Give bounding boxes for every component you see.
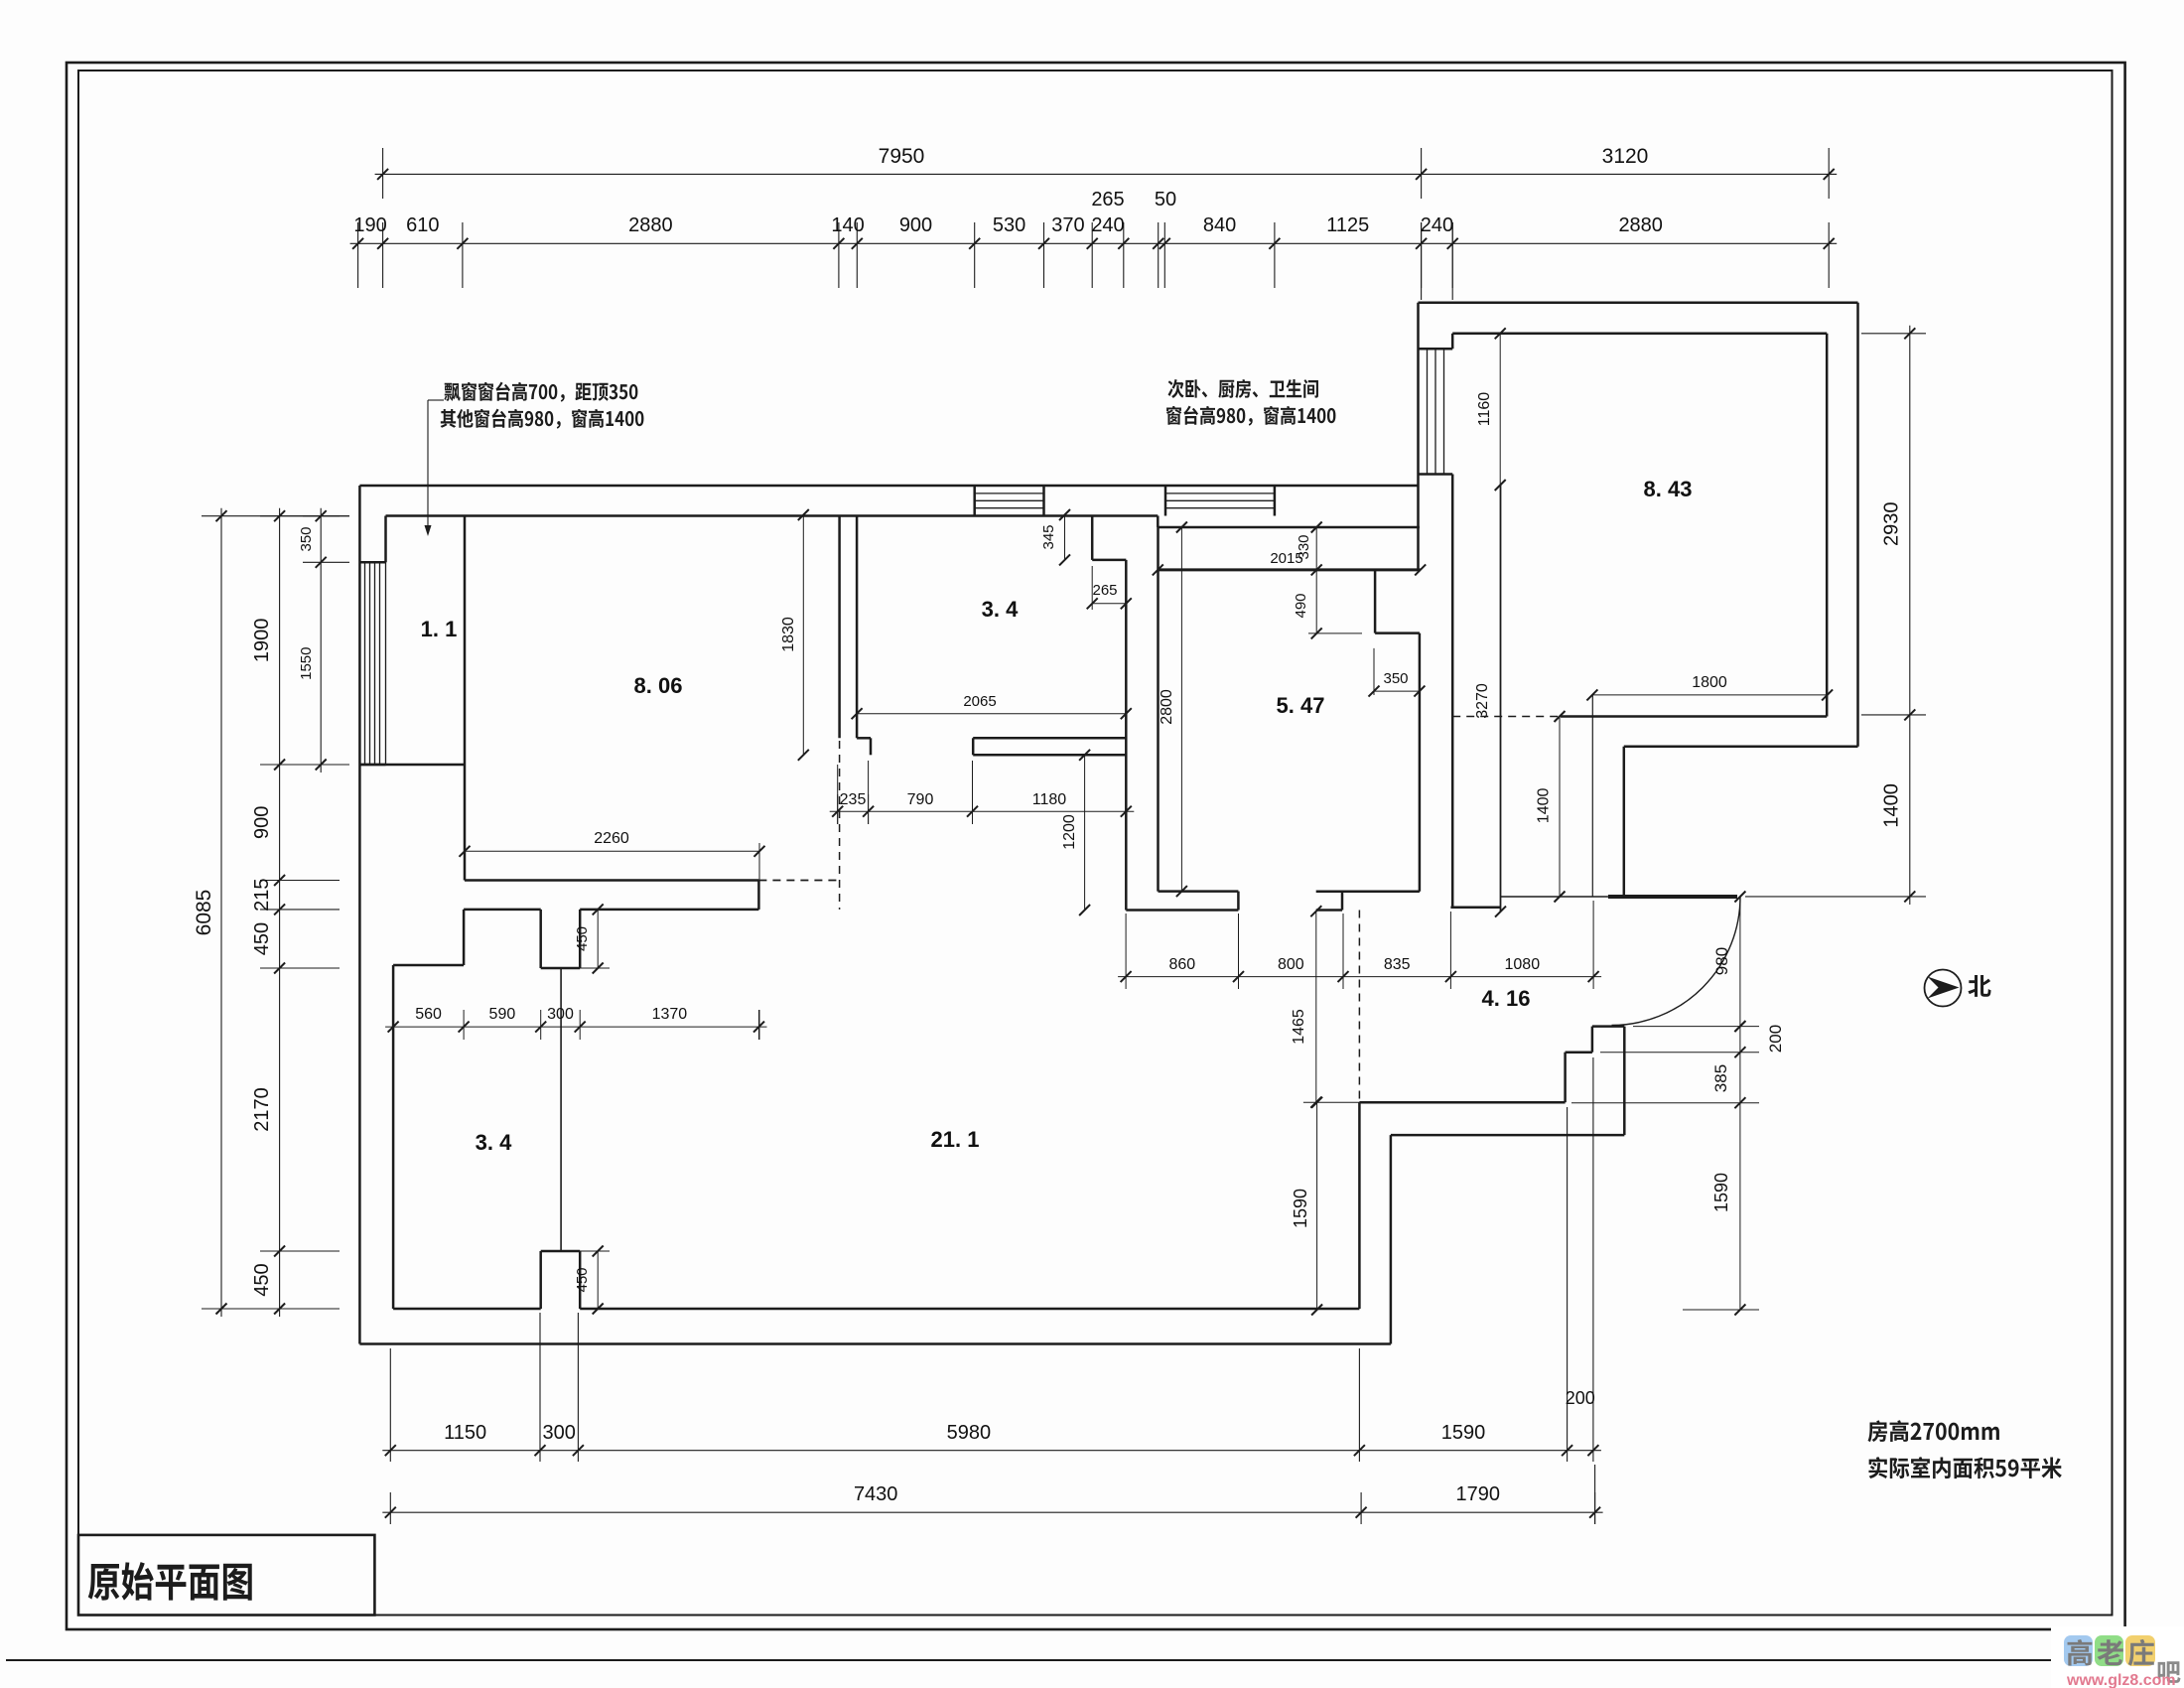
kitchen south wall [973,737,1126,740]
svg-text:350: 350 [298,526,315,551]
note: 其他窗台高980，窗高1400 [441,409,644,429]
svg-text:1370: 1370 [652,1006,688,1023]
svg-text:860: 860 [1168,956,1195,973]
bay 1.1 bottom wall [359,764,465,767]
svg-text:345: 345 [1040,524,1057,549]
door D1 swing arc [1612,897,1741,1026]
window W2 530 (top wall) [973,486,976,516]
bath niche walls [1374,570,1377,633]
svg-text:1830: 1830 [780,617,797,652]
svg-text:7430: 7430 [854,1483,898,1505]
svg-text:370: 370 [1051,214,1084,236]
svg-text:3120: 3120 [1602,145,1649,168]
dim chain top row 2 [350,242,1838,244]
title 原始平面图 [88,1562,252,1601]
svg-text:4. 16: 4. 16 [1482,986,1531,1011]
svg-text:235: 235 [840,791,867,808]
entry steps inner [1359,1101,1565,1104]
svg-text:835: 835 [1384,956,1411,973]
door jamb lines [1591,695,1593,897]
svg-text:200: 200 [1566,1388,1595,1408]
svg-text:1200: 1200 [1061,814,1078,850]
dim col right (2930/1400) [1909,326,1911,905]
leader note 1 [428,399,444,401]
svg-text:1400: 1400 [1536,788,1553,824]
info: 房高2700mm [1867,1420,1998,1442]
svg-text:900: 900 [251,806,273,839]
south wall outer face [359,1342,1391,1345]
svg-text:2065: 2065 [963,693,996,710]
8.43 room outer walls [1419,302,1858,305]
svg-text:450: 450 [251,1263,273,1296]
wall: 8.06 south face [465,879,758,882]
svg-text:8. 06: 8. 06 [634,673,683,698]
wall: west exterior [358,486,361,1344]
kitchen west wall [838,516,841,739]
svg-text:1. 1: 1. 1 [421,617,458,641]
south wall inner face [393,1308,541,1311]
note: 飘窗窗台高700，距顶350 [444,382,637,402]
svg-text:1590: 1590 [1291,1189,1310,1228]
glass partition 3.4/21.1 [560,968,562,1251]
dim row bottom 1 [382,1450,1601,1452]
watermark [2051,1626,2184,1688]
svg-text:2930: 2930 [1881,502,1903,547]
svg-text:900: 900 [899,214,932,236]
svg-text:590: 590 [489,1006,516,1023]
svg-text:450: 450 [574,926,591,951]
wall: bedroom 5.47 north inner face [1158,526,1420,529]
svg-text:2880: 2880 [1618,214,1663,236]
svg-text:215: 215 [251,879,273,912]
svg-text:790: 790 [907,791,934,808]
window W1 1550 bay (left wall) [359,561,385,564]
svg-text:1550: 1550 [298,647,315,680]
svg-text:385: 385 [1711,1064,1730,1092]
svg-text:265: 265 [1091,189,1124,211]
svg-text:140: 140 [831,214,864,236]
svg-text:300: 300 [543,1422,576,1444]
svg-text:800: 800 [1278,956,1304,973]
svg-text:5980: 5980 [947,1422,992,1444]
svg-text:1400: 1400 [1881,783,1903,828]
bath south wall + door opening 800 [1159,890,1239,893]
svg-text:3270: 3270 [1474,683,1491,719]
wall spur pocket 300x450 [539,910,542,968]
svg-text:190: 190 [353,214,386,236]
svg-text:1900: 1900 [251,619,273,663]
svg-text:1590: 1590 [1441,1422,1486,1444]
window W3 840 (top wall) [1164,486,1167,516]
svg-text:7950: 7950 [879,145,925,168]
svg-text:1800: 1800 [1692,674,1727,691]
svg-text:1080: 1080 [1505,956,1541,973]
svg-text:2880: 2880 [628,214,673,236]
entry door threshold [1501,896,1608,898]
living SE walls [1358,1102,1361,1309]
svg-text:2260: 2260 [594,830,629,847]
dim col left 2 [279,508,281,1317]
svg-text:610: 610 [406,214,439,236]
note: 次卧、厨房、卫生间 [1167,379,1317,398]
dim col left 1 (6085) [220,508,222,1317]
wall E of bath / W of 8.43 [1417,303,1420,570]
window W4 1160 (8.43 west wall) [1419,348,1453,351]
svg-text:840: 840 [1203,214,1236,236]
svg-text:1790: 1790 [1456,1483,1501,1505]
bath 5.47 shelf line 2015 (bold) [1158,568,1420,571]
svg-text:240: 240 [1091,214,1124,236]
svg-text:300: 300 [547,1006,574,1023]
dashed line under removed wall 4.16 [1358,911,1360,1103]
svg-text:265: 265 [1092,582,1117,599]
svg-text:490: 490 [1293,593,1309,618]
svg-text:200: 200 [1766,1025,1785,1053]
svg-text:1465: 1465 [1291,1009,1307,1045]
svg-text:1180: 1180 [1032,791,1067,808]
svg-text:1590: 1590 [1711,1173,1731,1212]
svg-text:330: 330 [1296,534,1312,559]
svg-text:1160: 1160 [1476,392,1493,427]
dim row bottom 2 [382,1511,1602,1513]
svg-text:3. 4: 3. 4 [982,597,1019,622]
8.43 room inner faces [1452,333,1827,336]
dim col left 3 (350/1550) [320,508,322,773]
svg-text:2800: 2800 [1159,689,1175,725]
svg-text:6085: 6085 [193,890,215,936]
title block [78,1535,374,1616]
svg-text:240: 240 [1421,214,1453,236]
note: 窗台高980，窗高1400 [1166,406,1335,426]
dim chain top row 1 [375,173,1838,175]
shaft wall lines [1500,486,1502,913]
svg-text:3. 4: 3. 4 [476,1130,512,1155]
info: 实际室内面积59平米 [1868,1457,2061,1478]
interior dims [1499,334,1501,486]
svg-text:980: 980 [1712,947,1731,975]
svg-text:530: 530 [993,214,1025,236]
wall stub at bottom 300x450 [541,1250,581,1253]
8.43 west inner face [1451,334,1454,349]
svg-text:2170: 2170 [251,1087,273,1132]
svg-text:560: 560 [415,1006,442,1023]
svg-text:21. 1: 21. 1 [931,1127,980,1152]
room 3.4 (bath) top face [393,964,464,967]
svg-text:450: 450 [251,922,273,955]
svg-text:1150: 1150 [444,1422,486,1444]
kitchen east wall w/ jog [1091,516,1094,560]
entry steps outer [1391,1134,1624,1137]
svg-text:8. 43: 8. 43 [1644,477,1693,501]
north arrow [1925,970,1962,1007]
kitchen door jamb step [857,737,871,740]
wall: north exterior (outer face) [359,485,1418,488]
bath 5.47 west wall [1157,527,1160,892]
dashed 8.43 south inner [1452,716,1561,718]
svg-text:350: 350 [1383,670,1408,687]
svg-text:www.glz8.com: www.glz8.com [2066,1672,2176,1688]
dashed kitchen wall continuation [839,741,841,910]
svg-text:50: 50 [1155,189,1176,211]
wall: living 8.06 west inner [464,516,467,881]
dashed opening 8.06 south [758,880,839,882]
svg-text:5. 47: 5. 47 [1277,693,1325,718]
hall north wall lower face [464,909,541,912]
svg-text:1125: 1125 [1326,214,1369,236]
svg-text:450: 450 [574,1267,591,1292]
wall: north exterior (inner face) [386,514,1159,517]
